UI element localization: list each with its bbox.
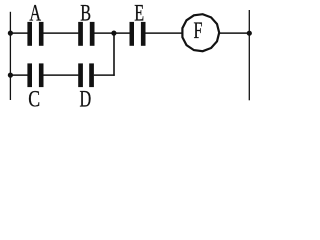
wire: contact A to contact B [43,32,78,34]
coil F (output circle) [182,14,219,51]
contact B (normally-open) [78,22,94,46]
wire: contact C to contact D [43,74,78,76]
svg-text:E: E [134,1,144,26]
wire: left rail to contact C (bottom rung) [10,74,28,76]
svg-text:C: C [28,88,40,113]
left power rail [9,12,11,100]
junction node: right rail / top rung [247,31,252,36]
contact D (normally-open) [78,63,94,87]
wire: branch riser (bottom rung up to top rung) [113,33,115,76]
wire: contact D to branch corner [94,74,115,76]
wire: coil F to right rail [219,32,249,34]
contact C (normally-open) [27,63,43,87]
svg-text:D: D [79,87,91,112]
contact E (normally-open) [130,22,146,46]
contact A (normally-open) [27,22,43,46]
wire: contact E to coil F [145,32,182,34]
junction node: branch join on top rung [111,30,116,35]
right power rail [248,10,250,100]
svg-text:B: B [80,1,91,26]
junction node: left rail / bottom rung [8,73,13,78]
wire: left rail to contact A [10,32,28,34]
svg-text:A: A [29,1,41,26]
svg-text:F: F [193,18,202,43]
wire: contact B to contact E [94,32,129,34]
junction node: left rail / top rung [8,30,13,35]
